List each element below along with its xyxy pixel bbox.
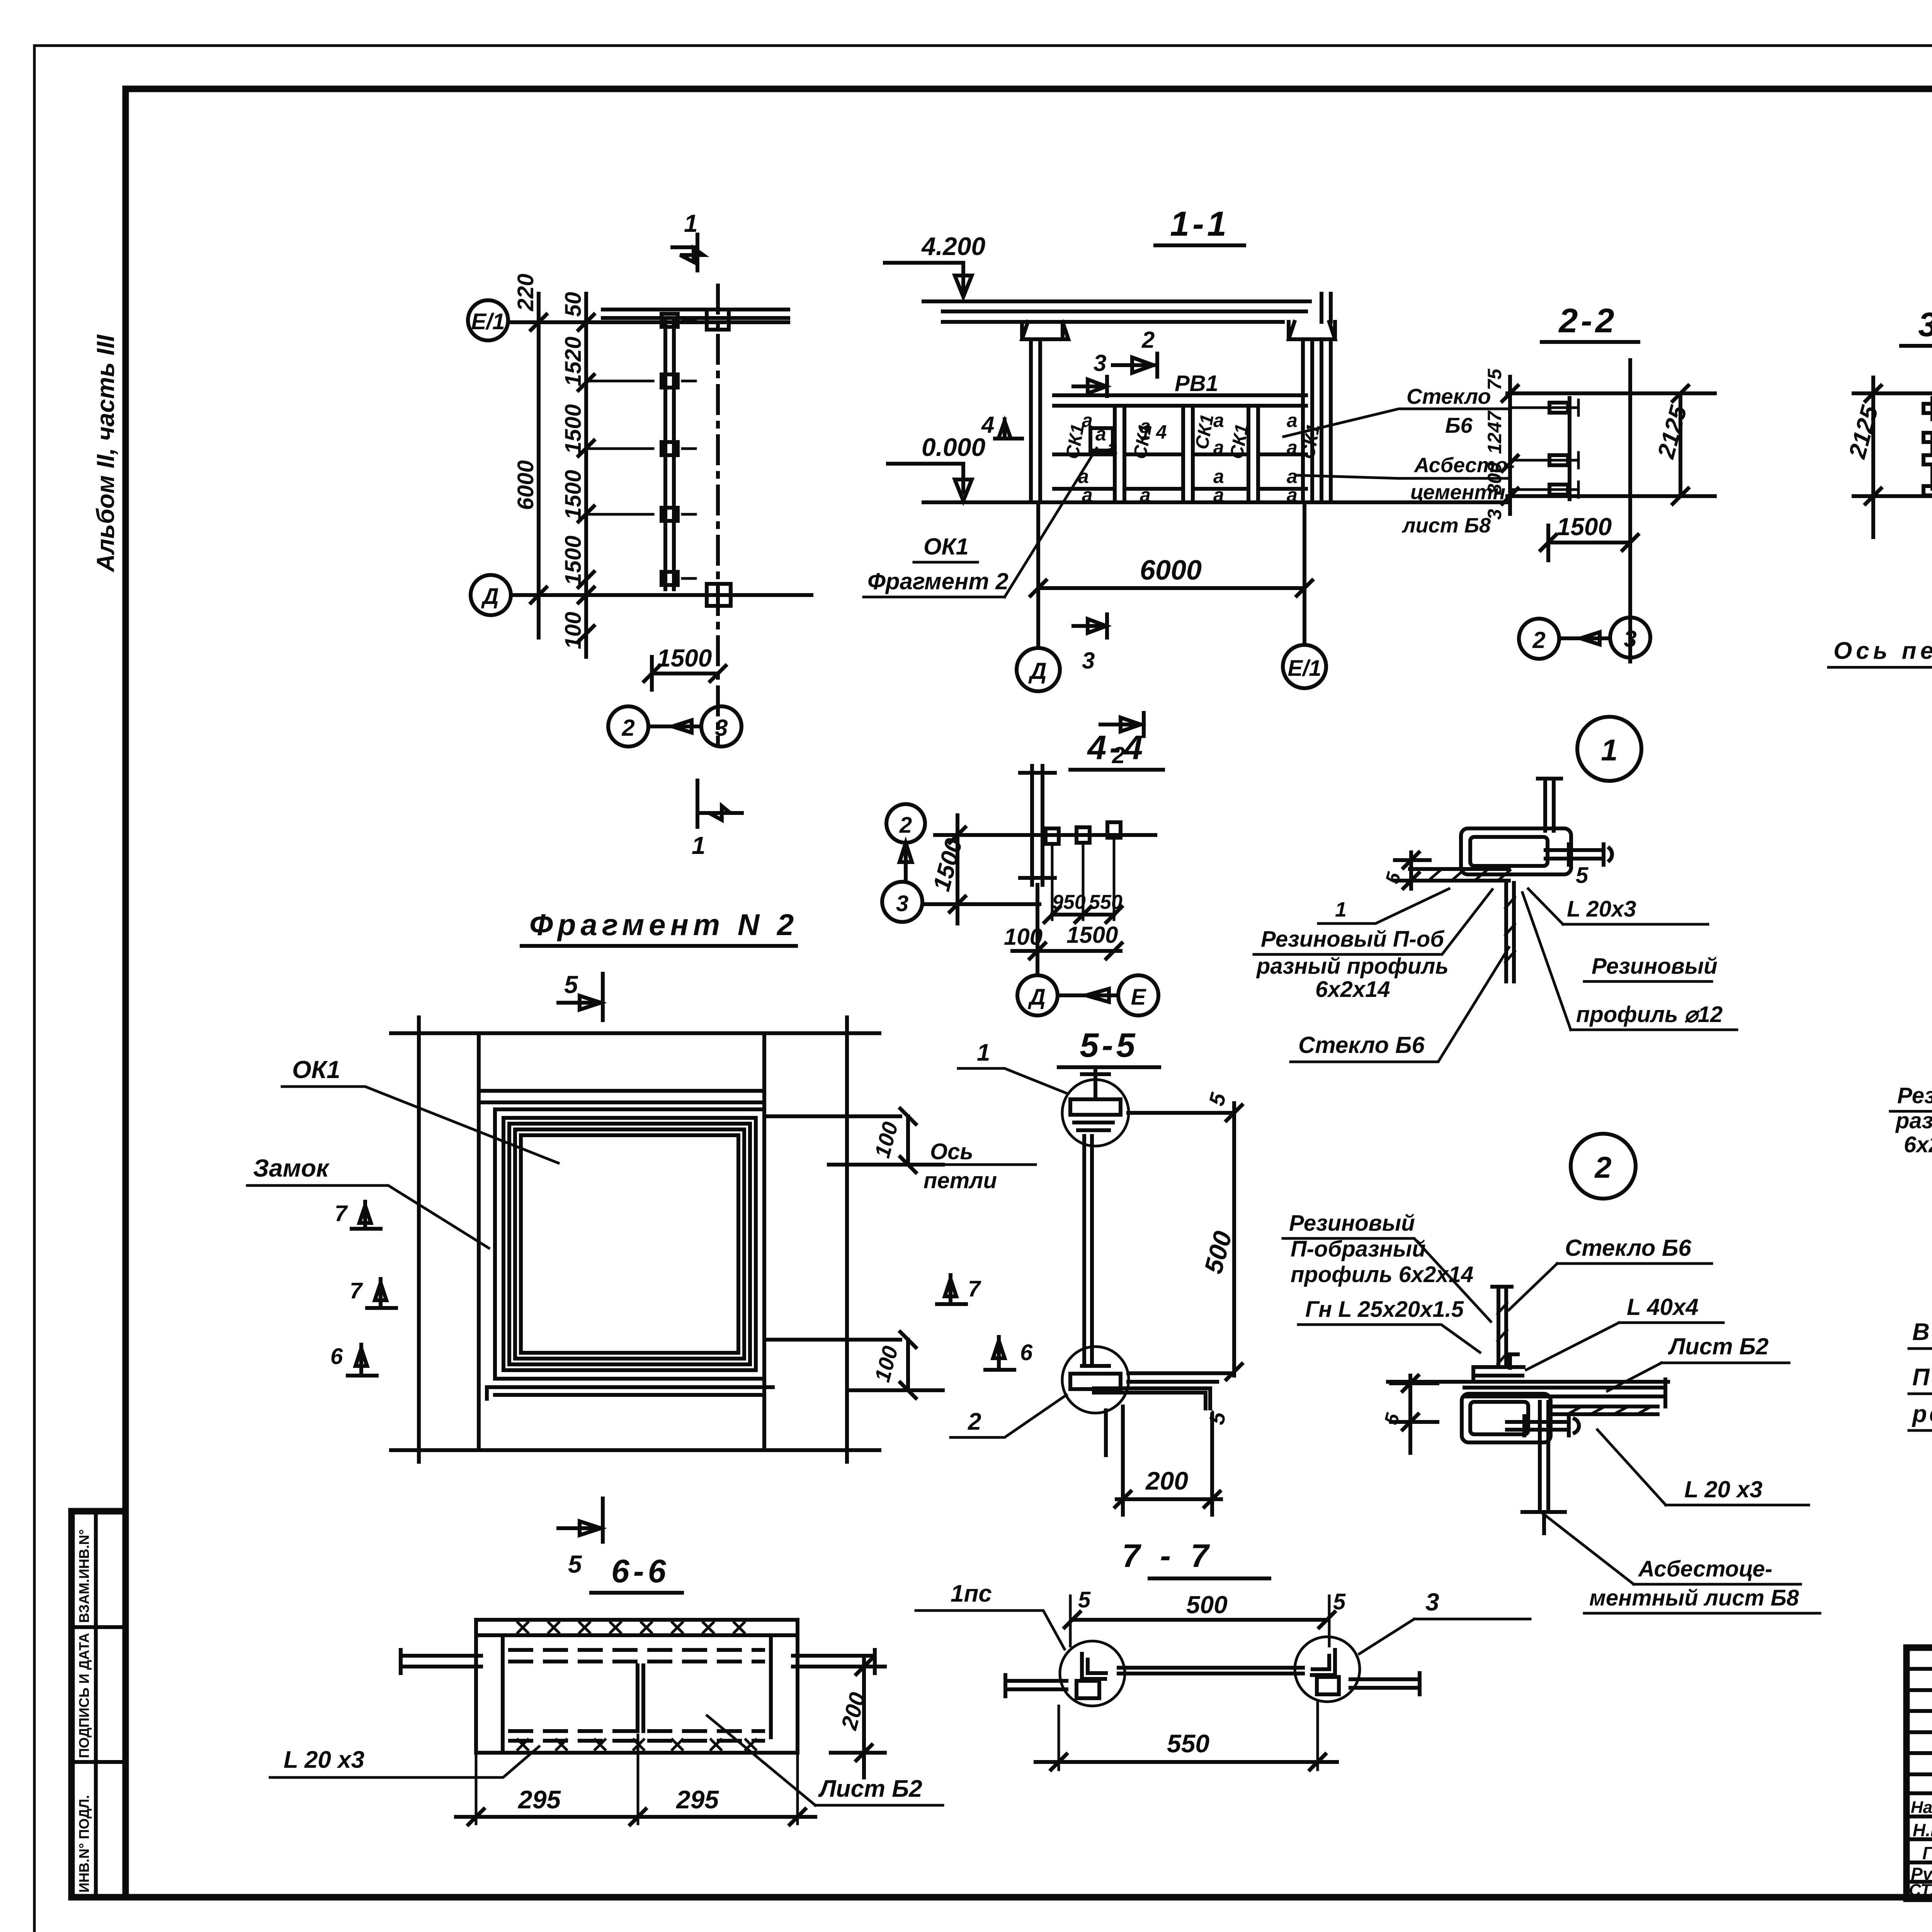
svg-text:7: 7	[350, 1278, 363, 1303]
svg-text:Резиновый: Резиновый	[1289, 1211, 1415, 1236]
svg-text:1500: 1500	[1557, 513, 1612, 541]
svg-text:7: 7	[968, 1276, 981, 1301]
svg-text:Нач.СКО2: Нач.СКО2	[1911, 1798, 1932, 1817]
svg-text:0.000: 0.000	[922, 433, 985, 461]
svg-text:500: 500	[1186, 1591, 1228, 1619]
svg-text:ментный лист Б8: ментный лист Б8	[1589, 1585, 1799, 1611]
svg-text:3: 3	[715, 715, 728, 741]
svg-text:4-4: 4-4	[1087, 728, 1146, 767]
svg-text:Асбестоце-: Асбестоце-	[1638, 1556, 1772, 1582]
svg-text:2: 2	[1141, 327, 1155, 353]
svg-text:Альбом II, часть III: Альбом II, часть III	[92, 334, 119, 573]
svg-text:Ось петли: Ось петли	[1833, 638, 1932, 664]
svg-text:5: 5	[564, 971, 578, 998]
svg-text:разный профиль: разный профиль	[1895, 1108, 1932, 1133]
svg-text:СТ.ИНЖ.: СТ.ИНЖ.	[1909, 1881, 1932, 1900]
svg-text:1500: 1500	[561, 536, 586, 585]
svg-text:550: 550	[1089, 891, 1122, 913]
svg-text:Замок: Замок	[253, 1154, 330, 1182]
svg-text:Резиновый П-об-: Резиновый П-об-	[1897, 1083, 1932, 1108]
svg-text:550: 550	[1167, 1729, 1209, 1758]
svg-text:ре завода-изготовителя.: ре завода-изготовителя.	[1912, 1401, 1932, 1427]
svg-text:6х2х14: 6х2х14	[1904, 1132, 1932, 1157]
svg-text:Е: Е	[1131, 985, 1147, 1010]
svg-text:2: 2	[1532, 627, 1545, 653]
svg-text:3: 3	[1082, 648, 1095, 673]
svg-text:Лист Б2: Лист Б2	[818, 1776, 922, 1802]
svg-text:6: 6	[330, 1344, 343, 1369]
svg-text:Ведомость элементов смотрите н: Ведомость элементов смотрите на листе 51…	[1912, 1319, 1932, 1345]
svg-text:4.200: 4.200	[921, 232, 985, 260]
svg-text:Фрагмент 2: Фрагмент 2	[867, 568, 1009, 594]
svg-text:Е/1: Е/1	[1287, 656, 1321, 681]
svg-text:3: 3	[1094, 350, 1106, 376]
svg-text:ГИП: ГИП	[1922, 1843, 1932, 1863]
svg-text:3: 3	[1624, 626, 1636, 652]
svg-text:1: 1	[977, 1039, 990, 1066]
svg-text:ВЗАМ.ИНВ.N°: ВЗАМ.ИНВ.N°	[76, 1529, 92, 1623]
svg-text:295: 295	[517, 1785, 561, 1814]
svg-text:3: 3	[1425, 1588, 1439, 1616]
svg-text:а: а	[1287, 437, 1298, 458]
svg-text:950: 950	[1052, 891, 1086, 913]
svg-text:ОК1: ОК1	[923, 534, 969, 560]
svg-text:2-2: 2-2	[1558, 301, 1617, 340]
svg-text:РВ1: РВ1	[1175, 371, 1218, 396]
svg-text:а: а	[1213, 410, 1224, 431]
svg-text:100: 100	[561, 612, 586, 649]
svg-text:лист Б8: лист Б8	[1401, 514, 1491, 537]
svg-text:1247: 1247	[1484, 410, 1505, 454]
svg-text:295: 295	[675, 1785, 719, 1814]
svg-text:2: 2	[968, 1408, 981, 1435]
svg-text:50: 50	[561, 292, 586, 317]
svg-text:Стекло Б6: Стекло Б6	[1565, 1235, 1691, 1261]
svg-text:1500: 1500	[561, 404, 586, 454]
svg-text:L 40х4: L 40х4	[1627, 1294, 1699, 1320]
svg-text:220: 220	[513, 274, 538, 311]
svg-text:1500: 1500	[657, 644, 712, 672]
svg-text:ОК1: ОК1	[292, 1056, 340, 1083]
svg-text:профиль ⌀12: профиль ⌀12	[1576, 1002, 1723, 1027]
svg-text:ПОДПИСЬ И ДАТА: ПОДПИСЬ И ДАТА	[76, 1633, 92, 1758]
svg-text:1: 1	[692, 832, 706, 859]
svg-text:7: 7	[335, 1201, 348, 1226]
svg-text:а: а	[1213, 437, 1224, 458]
svg-text:6: 6	[1020, 1340, 1033, 1365]
svg-text:5: 5	[1333, 1589, 1346, 1614]
svg-text:1: 1	[684, 209, 698, 237]
svg-text:Д: Д	[1027, 985, 1046, 1010]
svg-text:4: 4	[981, 412, 994, 438]
svg-text:Стекло: Стекло	[1406, 384, 1491, 408]
svg-text:2: 2	[899, 813, 912, 838]
svg-text:Б6: Б6	[1445, 413, 1473, 437]
svg-text:L 20 х3: L 20 х3	[1684, 1476, 1762, 1502]
svg-text:2: 2	[1594, 1150, 1611, 1184]
svg-text:Е/1: Е/1	[471, 309, 505, 334]
svg-text:L 20х3: L 20х3	[1567, 896, 1636, 922]
svg-text:Гн L 25х20х1.5: Гн L 25х20х1.5	[1305, 1297, 1464, 1322]
svg-text:L 20 х3: L 20 х3	[284, 1747, 364, 1773]
svg-text:1: 1	[1601, 733, 1617, 767]
svg-text:Н.контр: Н.контр	[1913, 1820, 1932, 1840]
svg-text:3: 3	[1484, 509, 1505, 520]
svg-text:6000: 6000	[513, 460, 538, 510]
svg-text:а: а	[1287, 410, 1298, 431]
svg-text:6-6: 6-6	[611, 1553, 670, 1589]
svg-text:Лист Б2: Лист Б2	[1668, 1333, 1769, 1359]
svg-text:Петли и замок для ОК1 принимат: Петли и замок для ОК1 принимать по номен…	[1912, 1364, 1932, 1391]
svg-text:1: 1	[1335, 898, 1347, 921]
svg-text:7 - 7: 7 - 7	[1122, 1537, 1214, 1574]
svg-text:Фрагмент N 2: Фрагмент N 2	[529, 908, 798, 942]
svg-text:1500: 1500	[561, 470, 586, 520]
svg-text:5: 5	[1576, 863, 1588, 888]
svg-text:1-1: 1-1	[1170, 205, 1230, 243]
svg-text:200: 200	[1145, 1466, 1188, 1495]
svg-text:3: 3	[896, 891, 908, 916]
svg-text:П-образный: П-образный	[1291, 1236, 1426, 1262]
svg-text:3-3: 3-3	[1918, 305, 1932, 344]
svg-text:800: 800	[1484, 462, 1505, 495]
svg-text:5-5: 5-5	[1080, 1026, 1138, 1064]
svg-text:1520: 1520	[561, 337, 586, 386]
svg-text:1пс: 1пс	[951, 1580, 992, 1607]
svg-text:75: 75	[1484, 368, 1505, 390]
svg-text:1500: 1500	[1066, 922, 1118, 948]
svg-text:ИНВ.N° ПОДЛ.: ИНВ.N° ПОДЛ.	[76, 1795, 92, 1893]
svg-text:5: 5	[568, 1550, 582, 1578]
svg-text:Стекло Б6: Стекло Б6	[1298, 1032, 1425, 1058]
svg-text:разный профиль: разный профиль	[1256, 954, 1449, 979]
svg-text:100: 100	[1004, 924, 1043, 950]
svg-text:Резиновый: Резиновый	[1592, 954, 1718, 979]
svg-text:6х2х14: 6х2х14	[1315, 977, 1390, 1002]
svg-text:Д: Д	[481, 584, 499, 609]
svg-text:Резиновый П-об: Резиновый П-об	[1261, 927, 1445, 952]
svg-text:6000: 6000	[1140, 555, 1202, 586]
svg-text:петли: петли	[923, 1168, 997, 1193]
svg-text:1 4: 1 4	[1140, 421, 1167, 443]
svg-text:Ось: Ось	[930, 1139, 973, 1164]
svg-text:Д: Д	[1028, 658, 1046, 684]
svg-text:2: 2	[621, 715, 634, 741]
svg-text:5: 5	[1078, 1587, 1091, 1612]
